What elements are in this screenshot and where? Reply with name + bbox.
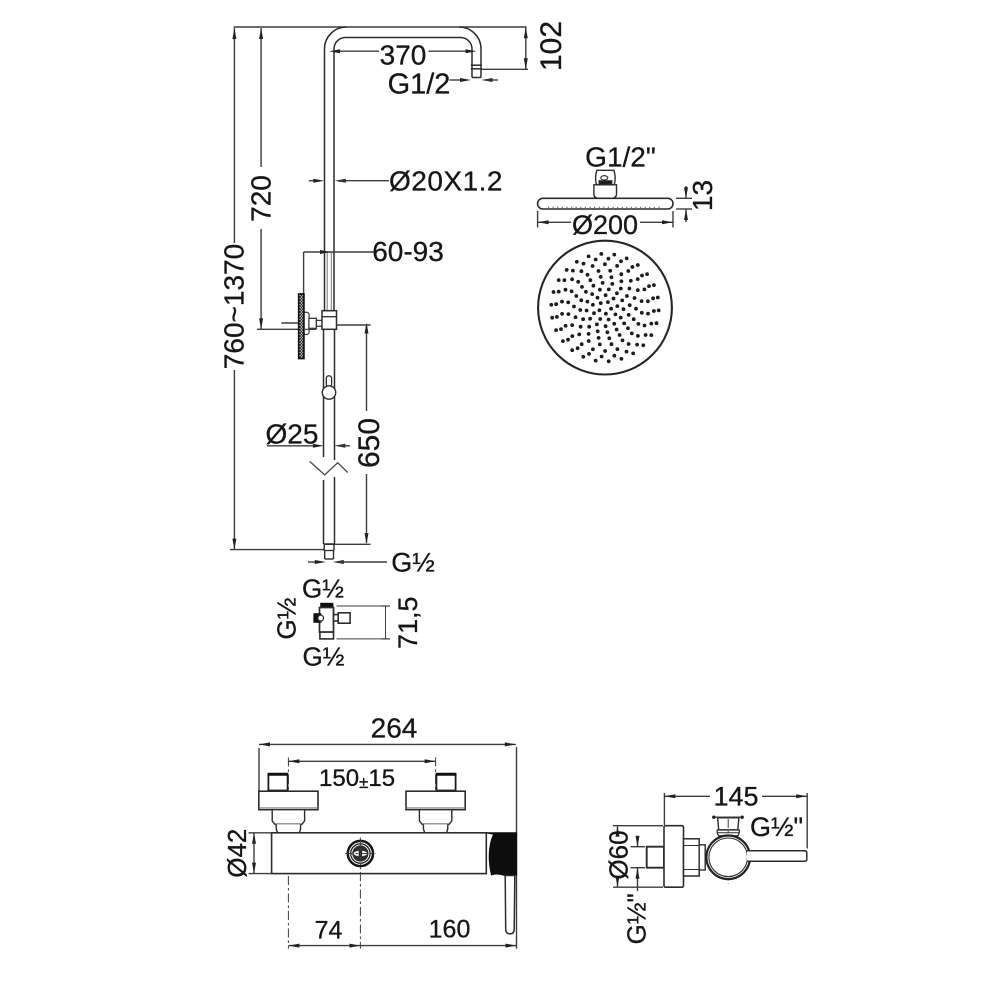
dimension 71,5 [337, 596, 424, 649]
svg-text:G½: G½ [303, 642, 345, 672]
svg-text:G1/2: G1/2 [388, 69, 451, 101]
svg-text:Ø42: Ø42 [222, 829, 252, 878]
side top port nut [717, 818, 739, 836]
svg-text:13: 13 [687, 180, 718, 211]
bracket arm [309, 318, 322, 328]
shower head nozzle holes [549, 252, 660, 363]
svg-text:Ø200: Ø200 [572, 210, 638, 240]
dimension diameter 42 [222, 829, 271, 878]
lower column tube [324, 329, 335, 544]
dimension 145 [664, 782, 807, 849]
mixer body circle side [706, 836, 750, 880]
label 60-93 wall bracket range [281, 236, 443, 323]
shower column riser pipe [234, 27, 527, 311]
left union centerline [287, 758, 289, 823]
right eccentric union [406, 774, 465, 838]
dimension 150 plus-minus 15 [288, 759, 435, 792]
slider block on pipe [322, 311, 337, 330]
svg-text:74: 74 [315, 917, 343, 945]
diverter knob front [348, 841, 373, 866]
dimension 760~1370 [219, 28, 325, 550]
svg-text:720: 720 [246, 175, 277, 222]
label diameter 25 [266, 419, 350, 450]
handle base black [486, 833, 516, 876]
diverter bottom port [320, 632, 334, 639]
side view centerline [727, 819, 729, 884]
dimension diameter 60 [604, 826, 664, 888]
wall connection port side [647, 847, 664, 868]
shower head ball joint [594, 170, 617, 198]
svg-text:150±15: 150±15 [319, 765, 395, 792]
shower arm G1/2 nut [471, 65, 482, 77]
handle lever [505, 876, 515, 934]
svg-text:760~1370: 760~1370 [219, 244, 250, 369]
svg-text:G½: G½ [272, 598, 302, 640]
dimension 720 [246, 28, 317, 329]
mixer body front [272, 833, 487, 874]
diverter left inlet port [313, 613, 323, 623]
diverter top port [320, 603, 333, 608]
knob centerlines [345, 838, 375, 870]
svg-text:145: 145 [713, 782, 758, 812]
body step side [699, 845, 705, 870]
dimension 370 [329, 40, 477, 71]
wall port G1/2 dimension [622, 836, 652, 945]
svg-text:71,5: 71,5 [393, 596, 423, 649]
svg-text:370: 370 [380, 40, 427, 71]
svg-text:G½: G½ [302, 574, 344, 604]
left eccentric union [259, 774, 318, 838]
diverter body [320, 608, 334, 633]
bracket extension line over flange [304, 328, 317, 330]
right union centerline [435, 758, 437, 823]
dimension 74 [288, 872, 360, 949]
label G1/2 shower arm [388, 69, 498, 101]
svg-text:60-93: 60-93 [372, 236, 444, 267]
svg-text:650: 650 [353, 418, 386, 468]
diverter right outlet [334, 613, 351, 623]
thread reference line with dots [712, 816, 744, 819]
svg-text:G1/2": G1/2" [585, 142, 656, 173]
dimension 102 [482, 21, 569, 71]
handle bar side [747, 851, 807, 862]
shower head disc side view [538, 198, 673, 209]
svg-text:G½": G½" [622, 893, 652, 944]
label G1/2 bottom outlet [308, 548, 435, 578]
svg-text:Ø20X1.2: Ø20X1.2 [389, 166, 503, 197]
dimension 13 head thickness [676, 180, 718, 222]
dimension 650 [324, 323, 386, 545]
pipe break symbol [310, 461, 348, 475]
svg-text:102: 102 [535, 21, 568, 71]
dimension 160 [360, 916, 516, 948]
hand shower holder ring [322, 376, 335, 399]
dimension diameter 200 [538, 210, 673, 240]
bracket flange [303, 312, 309, 334]
label diameter 20x1.2 pipe [309, 166, 503, 197]
hex adapter side [684, 839, 700, 876]
svg-text:Ø60: Ø60 [604, 830, 634, 879]
svg-text:264: 264 [371, 713, 418, 744]
wall plate hatched [299, 294, 304, 359]
svg-text:Ø25: Ø25 [266, 419, 319, 450]
dimension 264 [259, 713, 517, 949]
svg-text:G½": G½" [750, 812, 803, 842]
svg-text:160: 160 [429, 916, 471, 944]
wall flange escutcheon side [664, 826, 684, 888]
shower head face circle [538, 241, 672, 375]
inner sliding tube [327, 253, 331, 311]
column bottom outlet fitting [324, 544, 335, 559]
svg-text:G½: G½ [391, 548, 435, 578]
